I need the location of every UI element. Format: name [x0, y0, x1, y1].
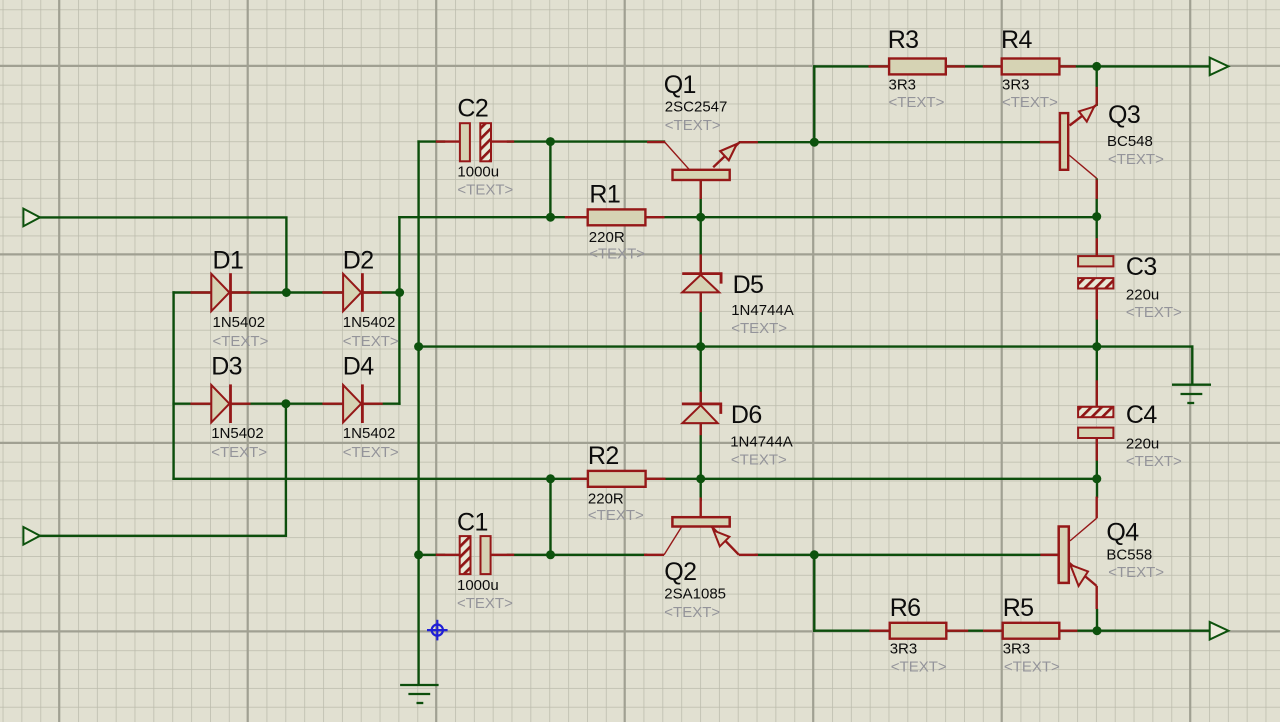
resistor R3 3R3 — [889, 59, 946, 75]
capacitor C2 1000u — [460, 123, 491, 161]
svg-text:<TEXT>: <TEXT> — [1126, 304, 1182, 321]
terminal input bottom — [23, 527, 40, 545]
zener D6 top lead — [700, 393, 702, 404]
wire C4 bottom lead — [1096, 438, 1098, 479]
svg-text:<TEXT>: <TEXT> — [211, 444, 267, 461]
terminal output top — [1210, 58, 1229, 76]
wire Q4 collector stub — [1096, 479, 1098, 497]
node Q4 emitter — [1093, 626, 1102, 635]
svg-text:<TEXT>: <TEXT> — [891, 659, 947, 676]
node Q1 emitter — [810, 138, 819, 147]
svg-text:<TEXT>: <TEXT> — [1126, 453, 1182, 470]
capacitor C2 leads — [437, 140, 460, 142]
svg-text:Q1: Q1 — [664, 71, 696, 99]
wire D6 branch — [700, 347, 702, 479]
svg-text:1N5402: 1N5402 — [343, 314, 396, 331]
svg-text:2SC2547: 2SC2547 — [665, 99, 728, 116]
transistor Q4 BC558 — [1040, 497, 1096, 609]
svg-text:D2: D2 — [343, 247, 374, 275]
svg-text:<TEXT>: <TEXT> — [457, 595, 513, 612]
svg-text:C1: C1 — [457, 508, 488, 536]
node Q3 collector — [1092, 212, 1101, 221]
svg-text:BC548: BC548 — [1107, 133, 1153, 150]
svg-text:<TEXT>: <TEXT> — [664, 604, 720, 621]
svg-text:3R3: 3R3 — [1002, 77, 1030, 94]
node C4 bottom — [1092, 474, 1101, 483]
node C1 right — [546, 550, 555, 559]
svg-text:Q2: Q2 — [664, 558, 696, 586]
node R1 right / Q1 base — [696, 213, 705, 222]
svg-text:1N4744A: 1N4744A — [731, 302, 794, 319]
terminal input top — [23, 209, 40, 227]
node D6 bottom — [696, 474, 705, 483]
svg-text:<TEXT>: <TEXT> — [1108, 151, 1164, 168]
wire R6 row feed vertical — [813, 555, 815, 631]
transistor Q2 2SA1085 — [644, 498, 758, 555]
svg-text:1N5402: 1N5402 — [211, 425, 264, 442]
svg-text:R1: R1 — [589, 180, 620, 208]
wire Q1 base stub — [700, 180, 702, 217]
svg-text:<TEXT>: <TEXT> — [343, 444, 399, 461]
svg-text:3R3: 3R3 — [889, 77, 917, 94]
resistor R6 3R3 — [890, 623, 947, 639]
node D3-D4 — [281, 399, 290, 408]
ground bottom — [400, 685, 439, 703]
wire ground rail vertical — [417, 142, 419, 685]
transistor Q1 2SC2547 — [647, 142, 758, 199]
svg-text:<TEXT>: <TEXT> — [588, 507, 644, 524]
svg-text:220R: 220R — [588, 490, 624, 507]
svg-text:R6: R6 — [890, 594, 921, 622]
svg-text:D4: D4 — [343, 353, 374, 381]
diode D4 1N5402 — [343, 384, 362, 423]
node ground rail C1 — [414, 550, 423, 559]
node D5-D6 mid — [696, 342, 705, 351]
svg-text:<TEXT>: <TEXT> — [589, 245, 645, 262]
zener D5 1N4744A — [682, 274, 721, 293]
wire bridge+ vertical to R1 row — [398, 217, 400, 404]
resistor R3 leads — [870, 65, 889, 67]
svg-text:<TEXT>: <TEXT> — [1002, 94, 1058, 111]
svg-text:220R: 220R — [589, 229, 625, 246]
wire Q1 emitter to Q3 base — [740, 141, 1060, 143]
node D2 cathode / bridge+ — [395, 288, 404, 297]
node C2 right — [546, 137, 555, 146]
svg-text:C2: C2 — [457, 94, 488, 122]
svg-text:Q4: Q4 — [1106, 518, 1139, 546]
zener D5 bottom lead — [700, 292, 702, 311]
zener D5 top lead — [700, 256, 702, 274]
ground right — [1172, 385, 1211, 403]
resistor R5 3R3 — [1003, 623, 1060, 639]
wire C2 to R1 row vertical — [549, 142, 551, 218]
terminal output bottom — [1210, 622, 1229, 640]
svg-text:1000u: 1000u — [457, 164, 499, 181]
transistor Q3 BC548 — [1040, 87, 1097, 199]
svg-text:<TEXT>: <TEXT> — [665, 117, 721, 134]
svg-text:1N5402: 1N5402 — [343, 425, 396, 442]
diode D4 leads — [324, 403, 344, 405]
capacitor C4 leads — [1096, 382, 1098, 407]
capacitor C3 leads — [1096, 239, 1098, 256]
svg-text:C4: C4 — [1126, 401, 1157, 429]
svg-text:<TEXT>: <TEXT> — [343, 333, 399, 350]
node ground rail mid — [414, 342, 423, 351]
wire Q3 emitter stub — [1095, 66, 1097, 104]
svg-text:<TEXT>: <TEXT> — [731, 320, 787, 337]
svg-text:1N4744A: 1N4744A — [730, 433, 793, 450]
diode D1 1N5402 — [211, 273, 230, 312]
zener D6 1N4744A — [682, 404, 721, 423]
svg-text:3R3: 3R3 — [1003, 641, 1031, 658]
wire D3-D4 row — [174, 403, 400, 405]
wire left bridge rail — [172, 293, 174, 479]
svg-text:BC558: BC558 — [1106, 546, 1152, 563]
diode D2 1N5402 — [343, 273, 362, 312]
svg-text:<TEXT>: <TEXT> — [731, 452, 787, 469]
svg-text:Q3: Q3 — [1108, 101, 1140, 129]
svg-text:R5: R5 — [1003, 594, 1034, 622]
node D1-D2 — [282, 288, 291, 297]
diode D1 leads — [192, 291, 212, 293]
capacitor C4 220u — [1078, 407, 1113, 438]
resistor R2 220R — [588, 471, 646, 487]
capacitor C1 1000u — [460, 536, 491, 574]
resistor R4 3R3 — [1002, 59, 1060, 75]
svg-text:220u: 220u — [1126, 287, 1159, 304]
svg-text:2SA1085: 2SA1085 — [664, 585, 726, 602]
wire R6-R5 row — [814, 630, 1209, 632]
resistor R5 leads — [984, 630, 1003, 632]
wire C3 top lead — [1095, 217, 1097, 257]
wire Q3 collector stub — [1095, 180, 1097, 217]
capacitor C1 leads — [437, 554, 460, 556]
svg-text:<TEXT>: <TEXT> — [889, 94, 945, 111]
svg-text:<TEXT>: <TEXT> — [1004, 659, 1060, 676]
zener D6 bottom lead — [700, 423, 702, 434]
svg-text:D3: D3 — [211, 353, 242, 381]
svg-text:D1: D1 — [213, 247, 244, 275]
svg-text:1000u: 1000u — [457, 577, 499, 594]
resistor R1 220R — [588, 209, 646, 225]
node R1 left — [546, 213, 555, 222]
wire R1 row — [399, 216, 1096, 218]
wire Q2 base stub — [700, 479, 702, 500]
svg-text:<TEXT>: <TEXT> — [1108, 564, 1164, 581]
node Q2 emitter — [810, 550, 819, 559]
resistor R1 leads — [566, 216, 588, 218]
wire C2 row — [419, 140, 444, 142]
resistor R6 leads — [871, 630, 890, 632]
wire negative rail row — [174, 478, 1097, 480]
node R2 left — [546, 474, 555, 483]
wire bottom input to D3/D4 node — [40, 404, 286, 536]
svg-text:<TEXT>: <TEXT> — [457, 182, 513, 199]
diode D3 leads — [192, 403, 212, 405]
capacitor C3 220u — [1078, 256, 1113, 288]
wire top input to D1/D2 node — [40, 217, 286, 292]
wire D5 branch — [700, 217, 702, 346]
wire Q2 emitter row to Q4 base — [756, 554, 1059, 556]
resistor R4 leads — [984, 65, 1002, 67]
node C3-C4 mid — [1092, 342, 1101, 351]
node R4 right — [1092, 62, 1101, 71]
wire D1-D2 row — [174, 291, 400, 293]
wire mid ground rail — [419, 345, 1193, 347]
svg-text:1N5402: 1N5402 — [213, 314, 266, 331]
svg-text:<TEXT>: <TEXT> — [213, 333, 269, 350]
svg-text:R4: R4 — [1001, 26, 1032, 54]
svg-text:D6: D6 — [731, 401, 762, 429]
wire R2 to C1 vertical — [549, 479, 551, 555]
svg-text:3R3: 3R3 — [890, 641, 918, 658]
svg-text:C3: C3 — [1126, 253, 1157, 281]
wire Q4 emitter stub — [1096, 610, 1098, 631]
wire R3-R4 row — [814, 65, 1209, 67]
wire C3-C4 middle column — [1096, 289, 1098, 407]
svg-text:D5: D5 — [733, 271, 764, 299]
svg-text:220u: 220u — [1126, 435, 1159, 452]
resistor R2 leads — [572, 478, 588, 480]
svg-text:R2: R2 — [588, 442, 619, 470]
origin marker — [427, 620, 448, 641]
svg-text:R3: R3 — [888, 26, 919, 54]
wire C1 row — [419, 554, 444, 556]
wire right ground stem — [1191, 347, 1193, 383]
wire R3 row feed vertical — [813, 66, 815, 142]
diode D3 1N5402 — [211, 384, 230, 423]
diode D2 leads — [324, 291, 344, 293]
